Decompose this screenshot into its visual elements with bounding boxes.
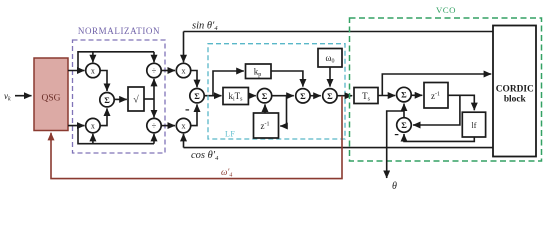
svg-text:√: √ — [133, 95, 139, 106]
summer phase detector — [190, 89, 204, 103]
wire sin bus from CORDIC — [184, 32, 494, 63]
svg-text:Σ: Σ — [262, 91, 268, 101]
wire branch up to kp — [213, 71, 244, 96]
block QSG — [34, 58, 68, 131]
wire sigma to sqrt — [114, 98, 127, 100]
label VCO — [436, 5, 456, 15]
block If — [462, 112, 485, 137]
svg-text:cos θ′4: cos θ′4 — [191, 150, 219, 162]
wire omega0 to summer3 — [329, 67, 331, 87]
wire QSG bottom output — [68, 125, 85, 127]
svg-text:Σ: Σ — [104, 95, 110, 105]
svg-text:θ: θ — [392, 181, 397, 192]
svg-text:CORDIC: CORDIC — [496, 85, 534, 95]
svg-text:x: x — [182, 66, 186, 75]
block omega0 — [318, 49, 342, 68]
wire divider bottom to mixer — [161, 125, 175, 127]
svg-text:x: x — [182, 121, 186, 130]
wire kp to summer2 — [271, 71, 303, 87]
summer sigma normalization — [100, 93, 114, 107]
summer integrator — [257, 89, 271, 103]
wire vk input arrow — [15, 95, 32, 97]
multiplier x top (squarer) — [86, 63, 100, 77]
label NORMALIZATION — [78, 26, 160, 36]
multiplier x bottom (squarer) — [86, 118, 100, 132]
wire theta output tap — [387, 111, 404, 178]
wire phase summer to kiTs — [204, 95, 221, 97]
minus sign summer2 VCO — [395, 134, 399, 135]
svg-text:NORMALIZATION: NORMALIZATION — [78, 26, 160, 36]
mixer x top — [176, 63, 190, 77]
wire cos bus from CORDIC — [184, 134, 494, 148]
wire divider top to mixer — [161, 70, 175, 72]
divider top — [147, 63, 161, 77]
svg-text:÷: ÷ — [152, 120, 157, 130]
normalization dashed box — [73, 40, 166, 153]
label LF — [225, 129, 235, 138]
wire kiTs to integrator summer — [248, 95, 255, 97]
svg-text:sin θ′4: sin θ′4 — [192, 20, 218, 32]
wire delay output to If block — [448, 95, 474, 110]
wire Ts to vco summer1 — [378, 95, 395, 97]
wire summer1 to delay z-1 VCO — [411, 94, 422, 96]
svg-text:VCO: VCO — [436, 5, 456, 15]
node vk input label — [4, 91, 11, 103]
wire delay branch to summer2 VCO — [413, 95, 460, 125]
wire integrator to summer2 with branch to delay — [272, 96, 294, 126]
svg-text:Σ: Σ — [401, 120, 407, 130]
label omega4 feedback — [221, 167, 232, 179]
svg-text:ω′4: ω′4 — [221, 167, 232, 179]
wire If feedback to summer2 VCO — [404, 134, 474, 141]
wire QSG top output — [68, 70, 85, 72]
divider bottom — [147, 118, 161, 132]
block delay z-1 VCO — [424, 83, 448, 109]
svg-text:x: x — [91, 66, 95, 75]
wire omega feedback to QSG (dark red) — [51, 96, 342, 179]
block kiTs — [223, 88, 248, 105]
summer1 VCO — [397, 87, 412, 102]
svg-text:Σ: Σ — [401, 90, 407, 100]
label cos theta4 — [191, 150, 219, 162]
summer2 VCO — [397, 118, 412, 133]
wire bottom branch to squarer and divider — [78, 126, 154, 144]
svg-text:x: x — [91, 121, 95, 130]
svg-text:QSG: QSG — [41, 93, 60, 103]
label theta — [392, 181, 397, 192]
svg-text:vk: vk — [4, 91, 11, 103]
block CORDIC — [493, 26, 536, 157]
svg-text:÷: ÷ — [152, 65, 157, 75]
wire mixer top to phase summer — [191, 71, 197, 88]
LF dashed box — [208, 44, 345, 139]
wire x bottom to sigma — [100, 108, 107, 125]
block delay z-1 LF — [254, 113, 279, 138]
svg-text:block: block — [504, 95, 527, 105]
mixer x bottom — [176, 118, 190, 132]
block square root — [128, 87, 144, 111]
wire delay to integrator summer — [264, 104, 266, 113]
svg-text:Σ: Σ — [327, 91, 333, 101]
wire branch up to CORDIC input — [382, 74, 491, 96]
svg-text:lf: lf — [472, 121, 477, 130]
wire summer3 to Ts — [337, 95, 352, 97]
wire summer2 to summer3 — [310, 95, 320, 97]
svg-text:LF: LF — [225, 129, 235, 138]
svg-text:Σ: Σ — [300, 91, 306, 101]
label sin theta4 — [192, 20, 218, 32]
block kp — [246, 64, 272, 79]
wire top branch to squarer and divider — [78, 52, 154, 71]
svg-text:Σ: Σ — [194, 91, 200, 101]
VCO dashed box — [350, 18, 542, 161]
minus sign phase summer — [186, 109, 190, 110]
wire x top to sigma — [100, 71, 107, 92]
wire sqrt output split to dividers — [144, 79, 154, 118]
block Ts — [354, 88, 378, 104]
wire mixer bottom to phase summer — [191, 104, 197, 125]
summer2 LF — [296, 89, 310, 103]
wire summer2 to summer1 VCO — [403, 104, 405, 118]
summer3 LF — [323, 89, 337, 103]
